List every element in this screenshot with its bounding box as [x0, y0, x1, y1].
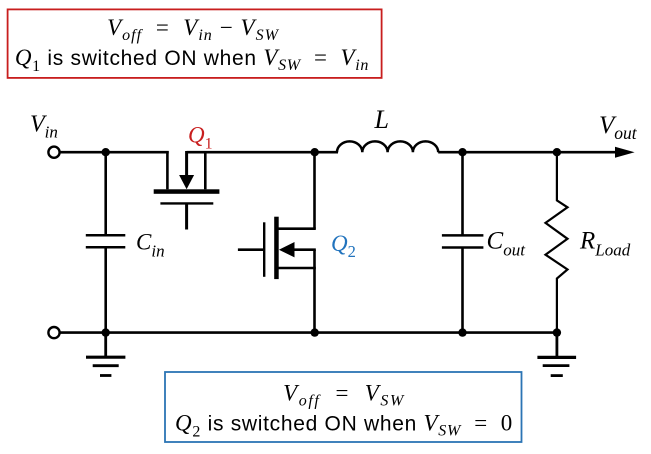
node: switch node [311, 148, 319, 156]
resistor RLoad [546, 152, 568, 332]
Q1 body lead with down arrow [185, 151, 188, 177]
ground symbol (right) [537, 333, 576, 376]
red info box [8, 9, 382, 78]
Q2 body lead with left arrow [292, 248, 316, 251]
wire: Q1 to switch node and inductor [187, 151, 338, 154]
wire: Cout branch lower [461, 248, 464, 333]
input terminal (open circle) [48, 147, 59, 158]
wire: Cin branch upper [104, 152, 107, 236]
Q1 drain leg (right) [204, 151, 207, 189]
Q2 gate lead [238, 248, 264, 251]
wire: Cin branch lower [104, 247, 107, 332]
Q2 drain lead [277, 227, 316, 230]
ground rail (bottom wire) [60, 331, 557, 334]
node: Q2 source bottom junction [311, 328, 319, 336]
svg-text:L: L [374, 105, 389, 134]
wire: inductor to output arrow [438, 151, 617, 154]
Q1 channel bar [154, 189, 220, 194]
wire: input terminal to Q1 source [60, 151, 169, 154]
capacitor Cin [86, 235, 126, 247]
Q1 gate line [160, 202, 213, 204]
capacitor Cout [442, 235, 484, 247]
node: RLoad top junction [553, 148, 561, 156]
output arrow Vout [615, 147, 635, 158]
node: Cin top junction [102, 148, 110, 156]
transistor Q1 (high-side MOSFET) [154, 151, 220, 230]
wire: Cout branch upper [461, 152, 464, 236]
Q2 channel bar [274, 217, 279, 279]
node: Cin bottom junction [102, 328, 110, 336]
node: Cout top junction [458, 148, 466, 156]
inductor L [337, 141, 438, 152]
node: RLoad bottom junction [553, 328, 561, 336]
Q2 gate line [263, 222, 265, 276]
Q2 body-source tie [313, 250, 316, 268]
ground terminal (open circle, bottom left) [48, 327, 59, 338]
Q2 source lead [277, 267, 316, 270]
Q1 gate stub [185, 203, 188, 229]
blue info box [165, 372, 522, 442]
transistor Q2 (low-side MOSFET) [238, 217, 316, 279]
ground symbol (left) [86, 333, 125, 376]
node: Cout bottom junction [458, 328, 466, 336]
wire: switch node down to Q2 drain [313, 152, 316, 229]
wire: Q2 source down to ground rail [313, 268, 316, 333]
Q1 source leg (left) [166, 151, 169, 189]
